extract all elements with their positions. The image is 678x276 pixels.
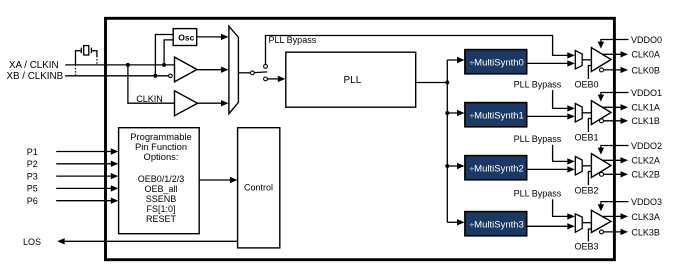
svg-text:÷MultiSynth0: ÷MultiSynth0 [470, 57, 524, 68]
wire XB/CLKINB [65, 75, 168, 77]
buffer: crystal amp U1 [175, 57, 198, 82]
wire P1 to pin-function block [56, 151, 112, 153]
svg-text:Osc: Osc [178, 32, 194, 42]
wire CLK2B output [604, 173, 623, 175]
svg-text:RESET: RESET [146, 214, 177, 224]
wire P3 to pin-function block [56, 175, 112, 177]
node: XA to Osc branch [162, 63, 166, 67]
wire VDDO0 supply [601, 40, 629, 43]
wire LOS output [63, 240, 238, 242]
wire Osc to input mux [197, 36, 223, 38]
PLL block [286, 52, 416, 107]
wire CLK3A output [603, 215, 622, 217]
svg-text:CLK0A: CLK0A [631, 50, 660, 60]
wire OEB1 enable [588, 119, 591, 133]
MultiSynth0 block [465, 50, 527, 74]
svg-text:CLK3B: CLK3B [631, 227, 660, 237]
wire VDDO1 supply [601, 93, 629, 96]
wire VDDO2 supply [601, 146, 629, 149]
node MultiSynth1 branch junction [445, 111, 449, 115]
wire MultiSynth0 to output mux [527, 62, 569, 64]
svg-text:P3: P3 [27, 171, 38, 181]
wire CLK2A output [603, 159, 622, 161]
svg-text:÷MultiSynth1: ÷MultiSynth1 [470, 110, 524, 121]
svg-text:VDDO2: VDDO2 [631, 141, 662, 151]
wire PLL Bypass to output mux 1 [553, 90, 569, 108]
output mux 0 [575, 51, 582, 70]
svg-text:P6: P6 [27, 196, 38, 206]
input mux (clock source select) [229, 26, 239, 113]
output mux 1 [575, 104, 582, 123]
svg-text:XB / CLKINB: XB / CLKINB [7, 71, 64, 82]
wire output mux 1 to buffer [582, 112, 591, 114]
wire P2 to pin-function block [56, 163, 112, 165]
oscillator block Osc [173, 29, 197, 46]
wire output mux 2 to buffer [582, 165, 591, 167]
node PLL output junction [445, 81, 449, 85]
inverted output bubble 3 [600, 230, 604, 234]
svg-text:CLK1A: CLK1A [631, 103, 660, 113]
wire PLL Bypass to output mux 3 [553, 199, 569, 216]
wire crystal amp to input mux [197, 69, 223, 71]
svg-text:CLK2A: CLK2A [631, 156, 660, 166]
wire branch to MultiSynth0 [447, 59, 458, 61]
net PLL Bypass (top rail) [266, 36, 569, 65]
MultiSynth3 block [465, 212, 527, 236]
inverting input bubble on XB [169, 74, 173, 78]
wire branch to MultiSynth2 [447, 165, 458, 167]
wire VDDO3 supply [601, 202, 629, 206]
svg-text:PLL: PLL [344, 75, 362, 86]
switch contact: bypass [264, 65, 268, 69]
node: XA to CLKIN-buffer branch [126, 63, 130, 67]
wire PLL Bypass to output mux 2 [553, 145, 569, 162]
svg-text:OEB2: OEB2 [575, 186, 599, 196]
svg-text:P2: P2 [27, 159, 38, 169]
wire CLK0A output [603, 53, 622, 55]
chip boundary box [106, 18, 615, 259]
wire XA/CLKIN [65, 64, 174, 66]
wire pin-function block to control [199, 179, 231, 181]
inverted output bubble 0 [600, 68, 604, 72]
MultiSynth2 block [465, 156, 527, 180]
svg-text:Options:: Options: [144, 151, 179, 162]
wire PLL output [416, 82, 448, 84]
svg-text:OEB_all: OEB_all [144, 184, 177, 194]
switch contact: PLL input [264, 77, 268, 81]
svg-text:CLKIN: CLKIN [136, 94, 163, 104]
control block [238, 128, 280, 248]
wire P6 to pin-function block [56, 200, 112, 202]
crystal X1 [76, 46, 97, 76]
node MultiSynth2 branch junction [445, 164, 449, 168]
node: XB to Osc branch [153, 74, 157, 78]
svg-text:LOS: LOS [23, 237, 41, 247]
wire mux output to switch pole [238, 72, 250, 74]
wire XA branch to Osc lower input [164, 40, 173, 65]
svg-text:PLL Bypass: PLL Bypass [269, 35, 317, 45]
wire CLK1B output [604, 120, 623, 122]
wire switch to PLL input [267, 78, 279, 80]
wire CLK3B output [604, 231, 623, 233]
wire branch to MultiSynth3 [447, 221, 458, 223]
svg-text:XA / CLKIN: XA / CLKIN [9, 60, 59, 71]
wire XA branch to CLKIN buffer [128, 65, 175, 103]
svg-text:PLL Bypass: PLL Bypass [514, 189, 562, 199]
svg-text:Control: Control [244, 182, 273, 192]
wire CLK1A output [603, 106, 622, 108]
svg-text:VDDO0: VDDO0 [631, 35, 662, 45]
svg-text:PLL Bypass: PLL Bypass [514, 134, 562, 144]
svg-text:P1: P1 [27, 147, 38, 157]
wire branch to MultiSynth1 [447, 112, 458, 114]
wire MultiSynth3 to output mux [527, 225, 569, 227]
svg-text:CLK3A: CLK3A [631, 212, 660, 222]
inverted output bubble 2 [600, 172, 604, 176]
switch lever [254, 71, 267, 74]
svg-text:CLK2B: CLK2B [631, 170, 660, 180]
output mux 2 [575, 157, 582, 176]
svg-text:OEB0/1/2/3: OEB0/1/2/3 [138, 174, 185, 184]
output buffer 2 [591, 154, 611, 178]
svg-text:VDDO3: VDDO3 [631, 197, 662, 207]
svg-text:P5: P5 [27, 184, 38, 194]
wire output mux 0 to buffer [582, 59, 591, 61]
svg-text:CLK0B: CLK0B [631, 65, 660, 75]
svg-text:OEB1: OEB1 [575, 133, 599, 143]
distribution bus vertical [446, 60, 448, 222]
svg-text:SSENB: SSENB [146, 194, 177, 204]
wire MultiSynth2 to output mux [527, 168, 569, 170]
MultiSynth1 block [465, 103, 527, 127]
output buffer 3 [591, 210, 611, 232]
svg-text:OEB0: OEB0 [575, 80, 599, 90]
svg-text:OEB3: OEB3 [575, 241, 599, 251]
output buffer 0 [591, 48, 611, 72]
svg-text:FS[1:0]: FS[1:0] [146, 204, 175, 214]
output mux 3 [575, 214, 582, 232]
wire CLKIN amp to input mux [198, 102, 223, 104]
wire OEB0 enable [588, 66, 591, 80]
wire output mux 3 to buffer [582, 222, 591, 224]
wire XB branch to Osc upper input [155, 35, 173, 76]
svg-text:÷MultiSynth2: ÷MultiSynth2 [470, 163, 524, 174]
svg-text:VDDO1: VDDO1 [631, 88, 662, 98]
inverted output bubble 1 [600, 119, 604, 123]
switch pole contact [251, 71, 255, 75]
svg-text:PLL Bypass: PLL Bypass [514, 80, 562, 90]
wire MultiSynth1 to output mux [527, 115, 569, 117]
svg-text:÷MultiSynth3: ÷MultiSynth3 [470, 219, 524, 230]
wire P5 to pin-function block [56, 187, 112, 189]
buffer: CLKIN amp U2 [175, 91, 198, 116]
programmable pin function block [119, 128, 200, 234]
wire OEB2 enable [588, 172, 591, 186]
wire OEB3 enable [588, 229, 591, 242]
wire CLK0B output [604, 69, 623, 71]
svg-text:CLK1B: CLK1B [631, 116, 660, 126]
output buffer 1 [591, 101, 611, 125]
